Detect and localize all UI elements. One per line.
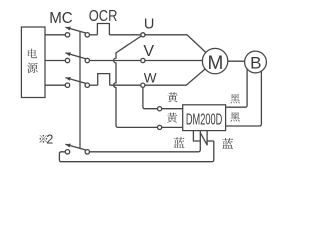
label 黄 yellow wire 2: [167, 113, 177, 123]
wire MC to OCR L1: [90, 34, 98, 36]
wire motor to brake: [228, 60, 245, 62]
contactor MC pole 1: [65, 27, 89, 37]
brake B: [245, 51, 267, 73]
svg-text:M: M: [207, 53, 223, 74]
label 黑 black wire 2: [230, 112, 239, 121]
svg-text:DM200D: DM200D: [186, 111, 222, 128]
contactor MC pole 2: [65, 52, 89, 62]
svg-text:2: 2: [46, 132, 53, 146]
label 源 (source): [27, 63, 37, 73]
OCR heater element L3: [98, 74, 110, 86]
wire MC to OCR L3: [90, 84, 98, 86]
wire into DM200D pin (yellow 2): [162, 126, 183, 128]
wire into DM200D pin (yellow 1): [162, 108, 183, 110]
wire OCR to terminal U: [109, 34, 141, 36]
OCR heater element L1: [97, 24, 109, 35]
label 黑 black wire 1: [230, 94, 239, 103]
motor M: [202, 48, 227, 73]
wire tap W to DM200D (yellow 1): [143, 87, 158, 108]
wire brake to DM200D (black 1): [226, 68, 248, 107]
contactor MC pole 3: [65, 77, 89, 87]
wire MC to terminal V: [90, 60, 142, 62]
wire source to MC L3: [45, 84, 65, 86]
label 蓝 blue wire 1: [174, 137, 185, 148]
label 黄 yellow wire 1: [167, 92, 177, 102]
aux contact ※2 (switch): [65, 144, 89, 154]
wire V to motor: [145, 60, 203, 62]
controller U1 DM200D: [183, 105, 226, 131]
label ※2: [40, 135, 48, 143]
label 电 (electric): [28, 49, 37, 58]
connector CN1: [200, 131, 214, 145]
wire tap U to DM200D (yellow), hops over V and W: [114, 36, 158, 127]
svg-text:B: B: [250, 54, 261, 73]
terminal circle yellow wire 1: [158, 107, 162, 111]
svg-text:W: W: [144, 71, 157, 86]
wire brake to DM200D (black 2): [226, 70, 262, 126]
terminal V: [141, 58, 145, 62]
terminal U: [141, 33, 145, 37]
wire connector to aux switch (bottom loop, blue): [59, 141, 213, 162]
power source box 电源: [21, 27, 45, 98]
wire W to motor: [145, 69, 205, 85]
svg-text:U: U: [144, 16, 154, 32]
MC mechanical linkage: [79, 31, 81, 149]
terminal circle yellow wire 2: [158, 125, 162, 129]
svg-text:OCR: OCR: [89, 8, 118, 25]
connector CN1 pin from DM200D: [193, 131, 200, 141]
wire U to motor: [145, 35, 206, 53]
svg-text:V: V: [143, 43, 154, 60]
wire source to MC L2: [45, 60, 65, 62]
wire OCR to terminal W: [110, 84, 141, 86]
wire aux switch to connector (blue): [90, 145, 201, 151]
svg-text:MC: MC: [49, 10, 72, 27]
wire source to MC L1: [45, 34, 65, 36]
terminal W: [141, 83, 145, 87]
label 蓝 blue wire 2: [222, 138, 233, 149]
